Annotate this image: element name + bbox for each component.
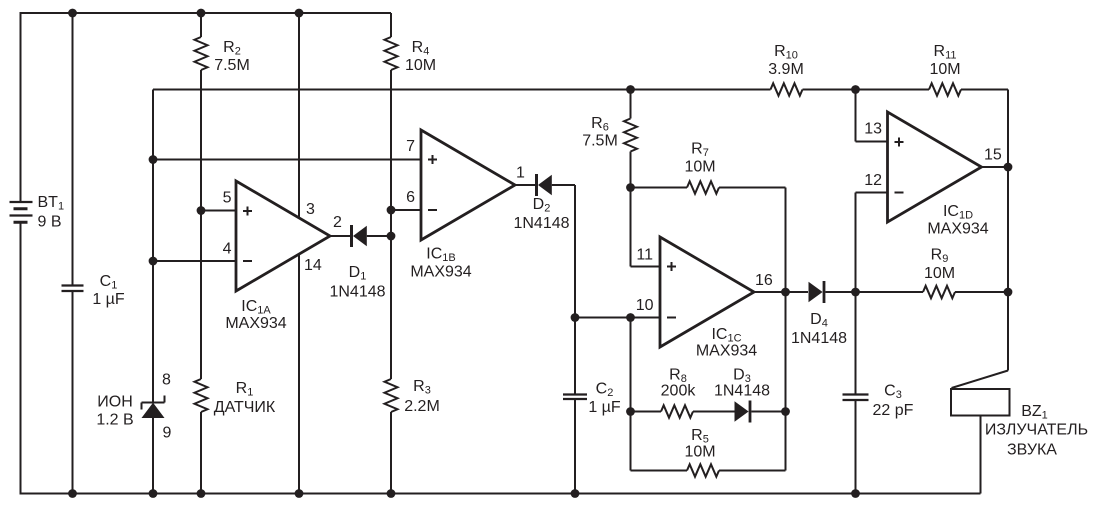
wire right column	[1007, 90, 1009, 371]
wire D4 to C3 node	[825, 291, 855, 293]
svg-text:7: 7	[406, 138, 415, 155]
diode D2 1N4148	[537, 174, 552, 196]
diode D3 1N4148	[735, 401, 751, 423]
svg-text:10M: 10M	[929, 61, 960, 78]
resistor R2 7.5M	[195, 37, 208, 70]
svg-text:IC1D: IC1D	[943, 203, 973, 222]
wire pin10 input wire	[575, 317, 660, 319]
svg-text:MAX934: MAX934	[696, 343, 757, 360]
svg-text:IC1A: IC1A	[241, 298, 271, 317]
node C3 top junction	[851, 288, 860, 297]
capacitor C1	[62, 286, 84, 292]
wire D2 to C2 column	[552, 185, 575, 318]
wire R8 row	[631, 411, 735, 413]
zener ION 1.2V reference	[142, 396, 165, 418]
svg-text:R4: R4	[412, 39, 430, 58]
svg-text:4: 4	[223, 241, 232, 258]
node R8 top junction	[626, 313, 635, 322]
svg-text:1N4148: 1N4148	[513, 215, 569, 232]
wire IC1C output	[754, 291, 808, 293]
svg-text:1: 1	[516, 165, 525, 182]
svg-text:10: 10	[636, 297, 654, 314]
resistor R5 10M	[687, 464, 719, 476]
svg-text:11: 11	[636, 247, 653, 264]
svg-text:6: 6	[406, 189, 415, 206]
svg-text:D2: D2	[533, 196, 551, 215]
svg-text:R6: R6	[591, 115, 609, 134]
svg-text:5: 5	[223, 190, 232, 207]
op-amp IC1C MAX934	[660, 237, 754, 347]
svg-text:2: 2	[333, 214, 342, 231]
svg-text:3.9M: 3.9M	[768, 61, 804, 78]
wire reference net y=90	[153, 89, 1008, 91]
IC1C minus sign	[667, 317, 676, 319]
node junction ref/IC1A-	[149, 257, 158, 266]
node R2 top rail	[197, 9, 206, 18]
resistor R4 10M	[385, 37, 398, 70]
wire IC1B output to D2	[515, 184, 535, 186]
wire C3 branch	[855, 292, 857, 494]
node pin14 ground	[295, 489, 304, 498]
svg-text:10M: 10M	[684, 444, 715, 461]
svg-text:ИЗЛУЧАТЕЛЬ: ИЗЛУЧАТЕЛЬ	[985, 422, 1088, 439]
node pin3 top rail	[295, 9, 304, 18]
svg-text:1 µF: 1 µF	[588, 399, 621, 416]
wire R6 branch	[630, 90, 632, 188]
svg-text:1N4148: 1N4148	[329, 284, 385, 301]
svg-text:9: 9	[163, 425, 172, 442]
node C2 ground	[571, 489, 580, 498]
op-amp IC1D MAX934	[888, 112, 982, 222]
node C3 ground	[851, 489, 860, 498]
svg-text:R9: R9	[931, 247, 949, 266]
svg-text:R2: R2	[223, 39, 241, 58]
svg-text:10M: 10M	[405, 57, 436, 74]
svg-text:15: 15	[984, 147, 1002, 164]
wire pin12 branch	[856, 193, 888, 293]
wire R2-R1 column	[200, 13, 202, 494]
wire R9 row	[856, 291, 1009, 293]
wire bottom ground rail	[21, 493, 981, 495]
svg-text:3: 3	[306, 201, 315, 218]
wire left rail (battery branch)	[20, 12, 23, 495]
battery BT1	[10, 202, 33, 222]
IC1B minus sign	[428, 209, 437, 211]
wire R4-R3 column	[390, 13, 392, 494]
diode D1 1N4148	[352, 225, 367, 247]
capacitor C3	[843, 395, 869, 401]
node IC1D output junction	[1004, 163, 1013, 172]
piezo body BZ1	[951, 389, 1010, 416]
svg-text:7.5M: 7.5M	[582, 133, 618, 150]
wire IC1D output	[982, 166, 1009, 168]
node D1/R4 junction	[387, 232, 396, 241]
svg-text:MAX934: MAX934	[927, 221, 988, 238]
node D3/R5 right junction	[781, 407, 790, 416]
wire C1 branch	[72, 13, 74, 494]
wire IC1A minus wire	[153, 260, 236, 262]
wire IC1A + input	[153, 159, 421, 161]
wire D3 to right column	[751, 411, 785, 413]
svg-text:R3: R3	[413, 378, 431, 397]
svg-text:2.2M: 2.2M	[404, 398, 440, 415]
IC1D minus sign	[895, 192, 904, 194]
svg-text:10M: 10M	[924, 265, 955, 282]
node R9/piezo junction	[1004, 288, 1013, 297]
wire R7 right column down	[785, 188, 787, 471]
svg-text:1N4148: 1N4148	[791, 330, 847, 347]
pin 14 power stub	[298, 254, 300, 494]
svg-text:R11: R11	[934, 43, 957, 62]
capacitor C2	[563, 395, 587, 400]
svg-text:R1: R1	[236, 380, 254, 399]
wire pin13 branch	[856, 90, 888, 142]
wire R8 branch column	[630, 318, 632, 471]
piezo top plate slant	[952, 371, 1009, 389]
resistor R9 10M	[923, 286, 955, 298]
svg-text:BT1: BT1	[38, 194, 65, 213]
svg-text:7.5M: 7.5M	[214, 57, 250, 74]
resistor R1 sensor	[195, 379, 208, 412]
op-amp IC1A MAX934	[236, 181, 330, 291]
wire C2 column	[574, 318, 576, 494]
resistor R3 2.2M	[385, 379, 398, 412]
svg-text:1.2 В: 1.2 В	[96, 412, 133, 429]
wire IC1A plus stub	[201, 210, 236, 212]
svg-text:C3: C3	[884, 383, 902, 402]
wire IC1B - input	[391, 209, 421, 211]
svg-text:MAX934: MAX934	[410, 264, 471, 281]
node C1 ground	[68, 489, 77, 498]
node D2/C2/pin10 junction	[571, 313, 580, 322]
node R3 ground	[387, 489, 396, 498]
wire reference column	[152, 90, 154, 494]
wire IC1A output to D1	[330, 235, 350, 237]
svg-text:200k: 200k	[661, 383, 697, 400]
node R8 row junction	[626, 407, 635, 416]
node R10/R11/pin13 junction	[851, 85, 860, 94]
svg-text:8: 8	[162, 372, 171, 389]
wire piezo to ground	[980, 416, 982, 494]
svg-text:ЗВУКА: ЗВУКА	[1007, 442, 1057, 459]
IC1B plus sign	[428, 155, 437, 164]
svg-text:22 pF: 22 pF	[873, 402, 914, 419]
resistor R6 7.5M	[624, 119, 637, 152]
node R1 ground	[197, 489, 206, 498]
svg-text:ДАТЧИК: ДАТЧИК	[214, 399, 276, 416]
resistor R7 10M	[687, 181, 719, 193]
node IC1C output junction	[781, 288, 790, 297]
node R6/R7/pin11 junction	[626, 183, 635, 192]
node C1 top rail	[68, 9, 77, 18]
svg-text:R10: R10	[774, 43, 798, 62]
node ref ground	[149, 489, 158, 498]
svg-text:MAX934: MAX934	[225, 315, 286, 332]
svg-text:C1: C1	[100, 273, 118, 292]
IC1C plus sign	[667, 262, 676, 271]
op-amp IC1B MAX934	[421, 130, 515, 240]
wire R7 row	[631, 187, 786, 189]
svg-text:C2: C2	[596, 381, 614, 400]
svg-text:1 µF: 1 µF	[92, 291, 125, 308]
svg-text:1N4148: 1N4148	[714, 383, 770, 400]
node R2/IC1A+ junction	[197, 206, 206, 215]
svg-text:14: 14	[304, 257, 322, 274]
svg-text:12: 12	[864, 172, 882, 189]
svg-text:16: 16	[755, 272, 773, 289]
resistor R10 3.9M	[771, 83, 803, 95]
svg-text:IC1B: IC1B	[426, 246, 455, 265]
wire D1 to R4 column	[367, 235, 391, 237]
resistor R11 10M	[929, 83, 961, 95]
wire pin11 branch	[631, 188, 661, 267]
svg-text:13: 13	[864, 121, 882, 138]
svg-text:9 В: 9 В	[38, 214, 62, 231]
svg-text:10M: 10M	[684, 159, 715, 176]
pin 3 power stub	[298, 13, 300, 218]
svg-text:D4: D4	[810, 311, 828, 330]
svg-text:ИОН: ИОН	[97, 394, 133, 411]
svg-text:BZ1: BZ1	[1021, 403, 1048, 422]
node junction ref/IC1B+	[149, 155, 158, 164]
wire R5 row	[631, 470, 786, 472]
svg-text:R7: R7	[691, 141, 709, 160]
wire top +9V rail	[21, 12, 392, 14]
svg-text:D1: D1	[349, 264, 367, 283]
IC1D plus sign	[895, 138, 904, 147]
resistor R8 200k	[661, 405, 693, 417]
diode D4 1N4148	[809, 281, 825, 303]
IC1A plus sign	[243, 207, 252, 216]
node R4/IC1B- junction	[387, 206, 396, 215]
IC1A minus sign	[243, 260, 252, 262]
node R6 top junction	[626, 85, 635, 94]
